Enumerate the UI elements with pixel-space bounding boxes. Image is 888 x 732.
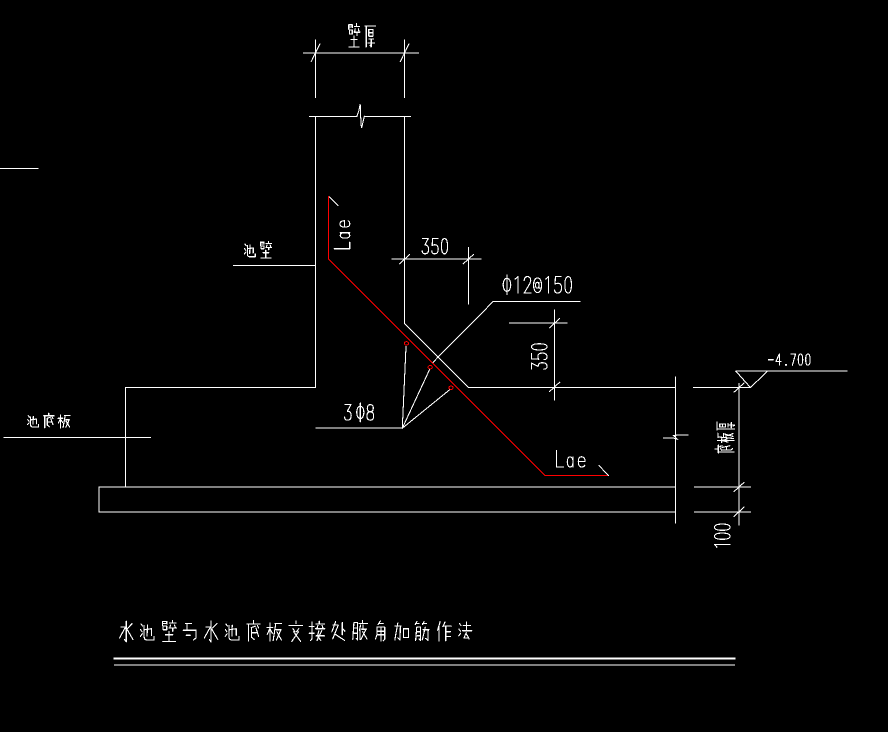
blinding layer left edge xyxy=(98,487,100,512)
dim line: wall thickness 壁厚 xyxy=(304,52,419,54)
leader underline of Φ12@150 xyxy=(493,301,580,303)
extension line: right of 壁厚 dim xyxy=(404,40,406,98)
bar circle 1 Φ8 xyxy=(404,342,408,345)
tick right of 350 h-dim xyxy=(463,255,473,264)
leader fan line 2 of 3Φ8 xyxy=(402,369,429,428)
tick at blinding top level xyxy=(734,482,744,491)
leader fan line 1 of 3Φ8 xyxy=(402,347,406,429)
tick left of 350 h-dim xyxy=(400,255,410,264)
label 底板厚 (slab thickness, vertical) xyxy=(715,445,734,453)
wall right face xyxy=(404,116,406,323)
label 池壁 (pool wall) xyxy=(244,244,255,257)
dim line: 350 horizontal xyxy=(392,258,481,260)
level mark triangle left side xyxy=(736,371,751,387)
wire: left margin reference line xyxy=(0,167,38,169)
wall left face xyxy=(315,116,317,387)
leader line of 池壁 xyxy=(233,265,315,267)
bar circle 3 Φ8 xyxy=(449,386,453,389)
tick top of 350 v-dim xyxy=(550,319,560,328)
label 池底板 (pool bottom slab) xyxy=(28,416,39,427)
slab right break edge vertical xyxy=(675,377,677,523)
level mark triangle right side xyxy=(751,371,768,387)
label Lae (vertical) xyxy=(334,242,350,249)
title underline thin xyxy=(115,664,735,666)
dim text 350 (vertical) xyxy=(532,363,547,370)
title underline thick xyxy=(115,658,735,660)
break mark zigzag on wall top xyxy=(357,104,364,128)
extension line at blinding top level xyxy=(694,486,750,488)
leader fan line 3 of 3Φ8 xyxy=(402,390,449,429)
label Φ12@150 xyxy=(503,275,511,295)
dim line: right vertical slab thickness xyxy=(738,384,740,526)
leader diagonal of Φ12@150 xyxy=(432,302,493,363)
tick bottom of 350 v-dim xyxy=(550,382,560,391)
slab top line left of wall xyxy=(126,387,316,389)
extension line at slab top level xyxy=(694,387,751,389)
extension line top of 350 v-dim xyxy=(510,322,567,324)
label 3Φ8 Φ8 xyxy=(357,403,364,422)
leader underline of 3Φ8 xyxy=(316,427,402,429)
blinding layer bottom line xyxy=(99,511,676,513)
blinding layer top line xyxy=(99,486,676,488)
tick at slab top level xyxy=(734,383,744,392)
tick: left oblique of 壁厚 dim xyxy=(311,44,320,62)
dim text 350 (horizontal) xyxy=(422,239,428,254)
slab left edge xyxy=(125,388,127,488)
leader line of 池底板 xyxy=(4,436,151,438)
tick at blinding bottom level xyxy=(734,507,744,516)
tick at rebar top end xyxy=(329,197,338,205)
level mark horizontal line xyxy=(736,370,847,372)
extension line at blinding bottom level xyxy=(694,511,750,513)
label Lae (horizontal) xyxy=(557,451,564,467)
title 水池壁与水池底板交接处腋角加筋作法 xyxy=(120,621,133,642)
label -4.700 xyxy=(768,359,773,361)
wall top cut edge (right segment) xyxy=(364,115,410,117)
tick at rebar foot end xyxy=(599,466,608,476)
label 3Φ8 digit 3 xyxy=(345,405,352,421)
dim line: 350 vertical xyxy=(554,310,556,400)
bar circle 2 Φ8 xyxy=(428,366,432,369)
tick: right oblique of 壁厚 dim xyxy=(400,44,409,62)
wall top cut edge (left segment) xyxy=(309,115,357,117)
slab top line right of haunch xyxy=(469,387,676,389)
break mark zigzag on slab right edge xyxy=(664,435,688,439)
dim text 100 (vertical) xyxy=(715,544,731,547)
extension line right of 350 h-dim xyxy=(468,247,470,304)
extension line: left of 壁厚 dim xyxy=(315,40,317,98)
haunch 45deg line xyxy=(405,324,469,388)
label 壁厚 (wall thickness) xyxy=(349,24,360,47)
rebar: red bent bar xyxy=(329,197,609,476)
